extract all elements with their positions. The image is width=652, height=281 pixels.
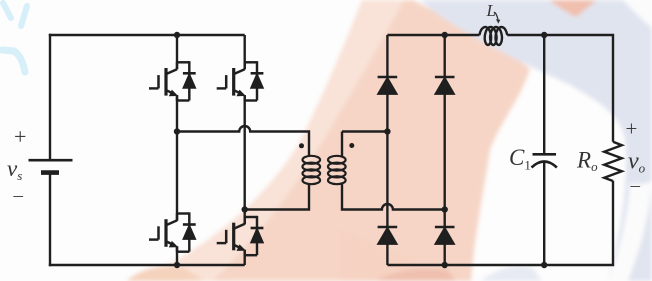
IGBT Q2 top-right of bridge [217, 61, 264, 101]
IGBT Q1 top-left [149, 61, 196, 101]
wire secondary top [342, 132, 387, 158]
diode D4 [435, 227, 455, 244]
white swoosh over blue band [608, 181, 652, 281]
wire leg2 collector segment [243, 35, 245, 69]
transformer secondary polarity dot [349, 143, 354, 148]
resistor Ro [604, 142, 622, 181]
node dot legB mid [442, 206, 448, 212]
wire leg2 middle segment [243, 95, 245, 209]
cyan logo mark top left [3, 3, 11, 18]
svg-text:–: – [630, 175, 641, 196]
svg-text:+: + [14, 124, 26, 149]
svg-text:+: + [626, 117, 638, 141]
transformer secondary winding [328, 156, 346, 184]
wire capacitor bottom lead [543, 162, 545, 265]
inductor L1 [480, 27, 508, 45]
svg-text:–: – [13, 185, 24, 206]
gray-blue wedge bottom center-right [480, 266, 542, 281]
wire secondary bottom with hop over legA [342, 183, 445, 210]
blue-gray watermark band [420, 0, 652, 281]
wire battery bottom lead [49, 173, 51, 267]
node dot legB bottom [442, 262, 448, 268]
IGBT Q3 bottom-left [149, 212, 196, 252]
wire bottom rail left [49, 264, 245, 266]
transformer primary winding [303, 156, 321, 184]
node dot C1 top [541, 32, 547, 38]
wire bottom rail right [387, 181, 613, 265]
salmon watermark band pale layer [135, 0, 530, 281]
diode D3 [378, 227, 398, 244]
wire capacitor top lead [543, 35, 545, 154]
node dot leg2 mid [242, 206, 248, 212]
wire battery top lead [49, 34, 51, 160]
node dot leg1 bottom [174, 262, 180, 268]
wire legA segments [386, 35, 388, 265]
white corner over blue band [623, 0, 652, 28]
label L1 arrow [494, 12, 498, 20]
diode D1 [378, 77, 398, 94]
deep salmon strip at bottom [375, 269, 456, 281]
wire leg1 collector segment [176, 35, 178, 69]
wire primary bottom [245, 183, 309, 210]
salmon watermark band main layer [213, 0, 530, 281]
wire top rail right [387, 35, 613, 142]
wire leg2 bottom segment [243, 250, 245, 265]
diode D2 [435, 77, 455, 94]
node dot legA mid [384, 128, 390, 134]
node dot C1 bottom [541, 262, 547, 268]
cyan logo mark 4 [14, 51, 25, 72]
wire leg2 lower segment [243, 210, 245, 225]
cyan logo mark 3 [2, 50, 14, 51]
cyan logo mark 2 [21, 6, 27, 26]
transformer primary polarity dot [299, 143, 304, 148]
capacitor C1 [532, 154, 557, 167]
wire top rail left [49, 34, 245, 36]
node dot leg1 top [174, 32, 180, 38]
amber wedge bottom left [126, 266, 204, 281]
battery voltage source vs [29, 160, 73, 172]
deep salmon wedge bottom middle [340, 228, 452, 281]
deep salmon ribbon top right [549, 0, 597, 17]
wire primary top with hop over leg2 [177, 126, 309, 157]
wire leg1 middle segment [176, 95, 178, 221]
svg-text:L: L [486, 1, 496, 20]
IGBT Q4 bottom-right of bridge [217, 216, 264, 256]
node dot legB top [442, 32, 448, 38]
wire legB segments [444, 35, 446, 265]
wire leg1 bottom segment [176, 246, 178, 265]
node dot leg1 mid [174, 128, 180, 134]
